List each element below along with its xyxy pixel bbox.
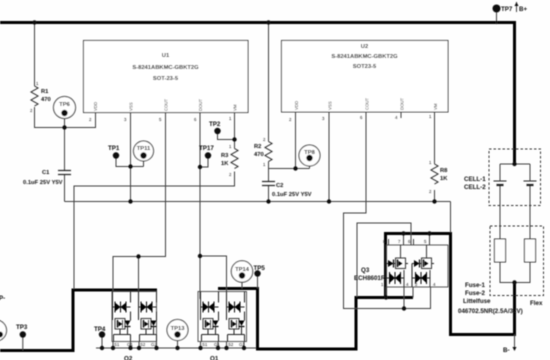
svg-text:CELL-1: CELL-1 — [464, 176, 486, 183]
fuse F1 — [495, 239, 506, 262]
svg-text:R2: R2 — [254, 144, 261, 150]
wire Q2 pin stubs — [113, 342, 157, 349]
wire R1 to VDD rail — [35, 107, 96, 128]
test point TP1 — [108, 145, 120, 159]
svg-text:ECH8601R: ECH8601R — [354, 275, 386, 282]
test point edge circle — [0, 320, 7, 341]
svg-text:TP2: TP2 — [209, 121, 221, 128]
wire B- offpage lead — [514, 335, 516, 348]
wire U2 COUT drop and jog — [344, 112, 431, 309]
battery CELL-2 — [524, 181, 537, 185]
wire Q1 pin stubs — [201, 342, 245, 349]
svg-text:B-: B- — [503, 347, 510, 354]
svg-text:B+: B+ — [519, 6, 527, 13]
wire top B+ bus (thick) — [0, 21, 515, 24]
svg-text:U1: U1 — [162, 53, 170, 59]
wire R3 bottom to P- riser — [74, 172, 235, 290]
wire U2 VSS pin drop — [328, 112, 330, 202]
battery CELL-1 — [494, 181, 507, 185]
svg-text:DOUT: DOUT — [198, 98, 203, 111]
svg-text:TP4: TP4 — [94, 326, 106, 333]
wire Q3 drain bus (thick) — [384, 232, 450, 235]
wire B+ bus right drop (thick) — [513, 21, 516, 164]
node B+ offpage arrow — [515, 2, 519, 6]
svg-text:1K: 1K — [221, 161, 229, 167]
wire TP5 stub — [257, 276, 259, 289]
wire Q3 source bus (thick) — [355, 296, 413, 299]
svg-text:Q3: Q3 — [361, 267, 370, 274]
test point TP14 — [231, 261, 252, 282]
wire source bus over Q2 package (thick) — [72, 289, 157, 292]
wire C1 top lead — [64, 128, 66, 171]
svg-text:Q1: Q1 — [210, 356, 219, 360]
wire C2 bottom lead — [268, 186, 270, 202]
source bar — [114, 329, 131, 342]
svg-text:0.1uF 25V Y5V: 0.1uF 25V Y5V — [272, 192, 312, 198]
body diode — [388, 260, 394, 267]
svg-text:0.1uF 25V Y5V: 0.1uF 25V Y5V — [23, 180, 63, 186]
svg-text:S1: S1 — [202, 342, 208, 347]
zener pair — [115, 303, 126, 312]
wire TP6 stub — [64, 116, 66, 128]
source rail — [386, 264, 388, 288]
svg-text:Fuse-1: Fuse-1 — [465, 282, 486, 289]
svg-text:C2: C2 — [276, 183, 283, 189]
wire B- drop (thick) — [449, 232, 452, 334]
node B- label and offpage arrow — [503, 347, 517, 354]
svg-text:VM: VM — [233, 104, 238, 111]
wire Q3 top pin stubs — [389, 234, 430, 246]
wire TP17 stub — [200, 157, 208, 167]
wire Q3 drain riser (thick) — [384, 234, 387, 300]
wire U1 COUT drop — [113, 113, 166, 292]
wire TP1 stub — [116, 157, 144, 167]
wire R8 bottom to VSS rail — [434, 190, 436, 202]
svg-text:Q2: Q2 — [124, 356, 133, 360]
wire TP8 stub — [309, 161, 311, 169]
wire R2 bottom to U2 VDD — [269, 162, 310, 169]
svg-text:Littelfuse: Littelfuse — [463, 298, 491, 305]
wire P- riser (thick) — [72, 290, 75, 352]
wire U2 VM to R8 — [434, 112, 436, 164]
test point TP11 — [134, 141, 154, 161]
svg-text:G1: G1 — [127, 342, 133, 347]
op-amp U1 protection IC S-8241 — [84, 41, 249, 123]
fuse F2 — [525, 239, 536, 262]
wire gate2 branch Q2 — [138, 257, 140, 300]
wire VSS rail drop to B- bus — [450, 202, 452, 233]
svg-text:DOUT: DOUT — [400, 97, 405, 110]
body diode — [125, 321, 131, 327]
wire P- bottom left (thick) — [0, 349, 73, 352]
wire Q1 source drop (thick) — [256, 287, 259, 349]
svg-text:S1: S1 — [114, 342, 120, 347]
capacitor C2 0.1uF — [262, 182, 312, 199]
svg-text:CELL-2: CELL-2 — [464, 184, 486, 191]
wire fuse output drop (thick) — [513, 283, 516, 335]
svg-text:Flex: Flex — [530, 300, 543, 307]
svg-text:TP17: TP17 — [199, 145, 214, 152]
wire cell1 leads — [499, 164, 501, 239]
wire TP7 stub — [496, 10, 498, 23]
svg-text:470: 470 — [254, 152, 264, 158]
svg-text:SOT23-5: SOT23-5 — [353, 64, 377, 70]
test point TP7 — [493, 5, 513, 14]
wire Q3 source pin stubs — [386, 287, 413, 298]
wire Q3 gate1 stub — [403, 287, 405, 309]
wire source bus over Q1 package (thick) — [218, 287, 258, 290]
wire riser to Q3 source (thick) — [355, 298, 358, 351]
svg-text:VSS: VSS — [328, 101, 333, 110]
svg-text:1K: 1K — [440, 176, 448, 182]
test point TP6 — [54, 97, 76, 119]
wire U2 DOUT stub — [400, 112, 402, 118]
test point TP13 — [167, 320, 188, 341]
svg-text:TP11: TP11 — [137, 146, 151, 152]
wire B- bottom run (thick) — [449, 333, 516, 336]
zener pair — [390, 273, 401, 283]
svg-text:S-8241ABKMC-GBKT2G: S-8241ABKMC-GBKT2G — [331, 54, 398, 60]
svg-text:C1: C1 — [42, 170, 50, 176]
svg-text:U2: U2 — [361, 44, 368, 50]
wire U1 DOUT drop — [200, 113, 227, 300]
wire bottom middle run (thick) — [256, 348, 356, 351]
svg-text:P-: P- — [0, 295, 5, 302]
wire C2 top lead — [268, 169, 270, 182]
svg-text:SOT-23-5: SOT-23-5 — [153, 76, 179, 82]
svg-text:G2: G2 — [151, 342, 157, 347]
resistor R1 470 — [30, 81, 51, 113]
svg-text:TP5: TP5 — [254, 265, 266, 272]
wire R2 feed from bus — [268, 23, 270, 142]
svg-text:VM: VM — [433, 103, 438, 110]
fet cell — [396, 258, 406, 269]
battery cell dashed enclosure — [489, 149, 541, 206]
test point TP8 — [299, 145, 320, 166]
svg-text:470: 470 — [41, 97, 51, 103]
svg-text:R3: R3 — [221, 153, 229, 159]
svg-text:R1: R1 — [41, 89, 49, 95]
wire C1 bottom lead — [64, 175, 66, 202]
op-amp U2 protection IC S-8241 — [282, 41, 449, 123]
svg-text:S2: S2 — [140, 342, 146, 347]
svg-text:TP7: TP7 — [501, 6, 513, 13]
gate lead — [113, 292, 116, 321]
svg-text:TP13: TP13 — [171, 326, 186, 332]
transistor Q2 dual MOSFET package — [112, 292, 157, 348]
transistor Q3 dual MOSFET package ECH8601 — [381, 239, 448, 287]
fet cell — [115, 319, 125, 330]
svg-text:TP14: TP14 — [235, 267, 250, 273]
svg-text:COUT: COUT — [164, 98, 169, 111]
svg-text:S-8241ABKMC-GBKT2G: S-8241ABKMC-GBKT2G — [132, 65, 199, 71]
test point TP2 — [209, 121, 221, 134]
wire TP13 stub — [177, 337, 179, 348]
svg-text:VDD: VDD — [294, 101, 299, 110]
svg-text:TP3: TP3 — [16, 324, 28, 331]
wire bottom drain rail Q2/Q1 — [96, 347, 256, 349]
svg-text:COUT: COUT — [365, 97, 370, 110]
wire TP4 stub — [101, 336, 103, 348]
resistor R8 1K — [429, 160, 448, 194]
wire TP3 stub — [22, 337, 24, 351]
test point TP5 — [254, 265, 266, 277]
wire U2 VDD pin drop — [295, 112, 297, 169]
svg-text:VSS: VSS — [129, 102, 134, 111]
svg-text:TP6: TP6 — [59, 102, 70, 108]
wire U1 VSS pin drop — [130, 113, 132, 202]
wire cell2 leads — [529, 164, 531, 239]
wire fuse bottom tie — [500, 262, 530, 283]
svg-text:VDD: VDD — [93, 102, 98, 111]
fuse dashed enclosure — [490, 226, 544, 296]
resistor R3 1K — [221, 144, 238, 177]
wire TP11 stub — [143, 158, 145, 167]
wire TP14 stub — [241, 278, 243, 289]
test point TP4 — [94, 326, 106, 338]
wire cell top tie — [500, 163, 530, 165]
wire gate1 branch Q1 — [199, 256, 201, 299]
svg-text:Fuse-2: Fuse-2 — [465, 290, 486, 297]
svg-text:R8: R8 — [440, 168, 448, 174]
svg-text:TP1: TP1 — [108, 145, 120, 152]
svg-text:S2: S2 — [228, 342, 234, 347]
capacitor C1 0.1uF — [23, 170, 71, 186]
wire VSS rail — [65, 201, 451, 203]
test point TP17 — [199, 145, 214, 159]
wire U1 VM pin to R3 — [234, 113, 236, 149]
wire Q3 drain sense jog — [357, 223, 411, 297]
svg-text:046702.5NR(2.5A/32V): 046702.5NR(2.5A/32V) — [458, 308, 523, 315]
transistor Q1 dual MOSFET package — [198, 292, 247, 348]
svg-text:G1: G1 — [214, 342, 220, 347]
test point TP3 — [16, 324, 28, 338]
wire TP2 stub — [218, 133, 235, 140]
wire B+ offpage tick — [516, 2, 518, 12]
svg-text:G2: G2 — [239, 342, 245, 347]
resistor R2 470 — [254, 137, 272, 167]
wire R1 feed from bus — [34, 23, 36, 87]
